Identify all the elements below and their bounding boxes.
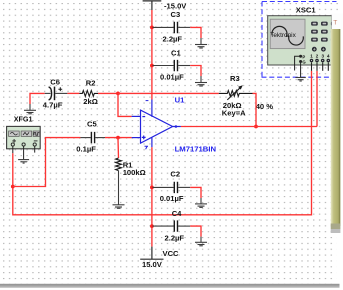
resistor R2 [79,78,98,106]
olive scrollbar [340,29,343,290]
node junction noninverting [116,136,120,140]
wire VCC rail (op-amp V- down) [151,147,153,246]
wire R2 to node [98,92,118,94]
resistor R1 [116,158,146,177]
wire node down to R1 [117,138,120,158]
ground (C1) [195,76,207,86]
capacitor C1 [153,48,191,81]
ground (R1) [113,205,125,209]
function generator XFG1 [7,114,41,159]
wire C6 to R2 [67,92,79,94]
bottom scrollbar [0,284,340,288]
svg-text:T: T [333,19,337,26]
wire C6 left to ground [30,93,45,104]
svg-text:R3: R3 [230,74,240,83]
wire R1 to ground [118,171,120,205]
wire scope ch2 down [316,71,318,127]
wire C4 to ground [190,226,201,237]
svg-text:2.2µF: 2.2µF [165,233,185,242]
svg-text:100kΩ: 100kΩ [123,168,146,177]
wire to inverting input [118,93,132,116]
wire R3 down to output line [253,93,257,126]
svg-text:C2: C2 [170,169,180,178]
svg-text:Key=A: Key=A [222,109,246,118]
node junction R3/output [254,125,258,129]
capacitor C6 (electrolytic) [43,77,68,109]
svg-text:0.1µF: 0.1µF [76,144,96,153]
ground (XFG1 COM) [18,160,29,164]
node junction C3 [150,26,154,30]
potentiometer R3 [219,74,273,118]
svg-text:0.01µF: 0.01µF [160,194,184,203]
node junction C1 [150,64,154,68]
svg-text:XFG1: XFG1 [14,114,33,123]
node junction (feedback / inverting input) [116,92,120,96]
svg-text:Tektronix: Tektronix [270,32,296,39]
right gutter white strip [332,13,343,29]
op-amp U1 [132,100,181,150]
capacitor C3 [153,10,191,44]
scope P pin [295,56,301,70]
node junction C2 [150,186,154,190]
node junction C4 [150,224,154,228]
svg-text:C4: C4 [172,209,182,218]
ground (C3) [195,38,207,48]
svg-text:2.2µF: 2.2µF [163,35,183,44]
ground (C4) [195,237,207,246]
svg-text:C5: C5 [87,119,97,128]
wire C3 to ground [190,27,201,38]
wire C1 to ground [190,66,201,77]
ground (scope G) [295,78,305,82]
svg-text:C6: C6 [50,77,60,86]
wire scope ch1 down and around bottom [13,71,312,215]
svg-text:4.7µF: 4.7µF [43,100,63,109]
svg-text:XSC1: XSC1 [296,5,317,14]
svg-text:2kΩ: 2kΩ [83,97,98,106]
wire C2 to ground [190,187,201,198]
wire op-amp output line [181,126,317,128]
selection dashed box around XSC1 [262,2,337,78]
node junction XFG1 [11,185,15,189]
ground (C6 input) [24,104,36,114]
svg-text:0.01µF: 0.01µF [160,72,184,81]
capacitor C5 [76,119,105,153]
svg-text:VCC: VCC [163,249,180,258]
svg-text:R2: R2 [86,78,96,87]
svg-text:U1: U1 [175,96,185,105]
scope channel pins 1-4 [310,54,330,59]
wire C5 to noninverting node [105,137,132,139]
svg-text:15.0V: 15.0V [142,260,163,269]
svg-text:C3: C3 [171,10,181,19]
scope G pin [299,60,302,63]
ground (C2) [195,198,207,207]
capacitor C2 [153,169,191,203]
svg-text:C1: C1 [171,48,181,57]
VCC power symbol [140,247,163,260]
wire XFG1 + pin down [12,153,14,186]
oscilloscope XSC1 [268,5,338,77]
VEE power symbol (cut at top) [143,1,162,10]
wire VEE rail down to op-amp V+ [151,10,153,100]
wire feedback line to R3 [118,92,219,94]
svg-text:LM7171BIN: LM7171BIN [175,145,217,154]
svg-text:40 %: 40 % [256,102,274,111]
wire to C5 riser [13,138,81,187]
capacitor C4 [153,209,191,242]
